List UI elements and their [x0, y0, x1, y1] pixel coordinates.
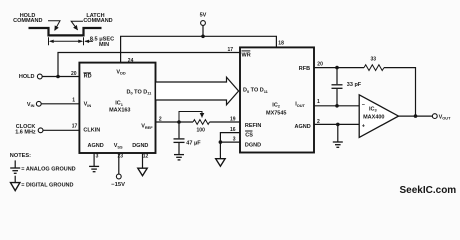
svg-text:HOLD: HOLD [19, 74, 35, 80]
digital ground (IC2) [216, 159, 225, 167]
VIN input terminal [27, 101, 41, 108]
capacitor 47uF [174, 122, 202, 154]
svg-text:MX7545: MX7545 [266, 110, 287, 116]
wire HOLD junction to WR pin 17 [58, 53, 240, 77]
svg-text:33 pF: 33 pF [347, 82, 362, 88]
svg-text:WR: WR [242, 52, 251, 58]
timing waveform [29, 28, 102, 35]
svg-text:−15V: −15V [111, 182, 125, 188]
leader arrow from HOLD COMMAND to falling edge [48, 21, 60, 31]
svg-text:2: 2 [317, 119, 320, 125]
svg-text:AGND: AGND [295, 124, 311, 130]
IC1 MAX163 box [79, 63, 155, 153]
capacitor 33pF [332, 68, 362, 106]
dimension double arrow [49, 40, 83, 43]
svg-text:18: 18 [278, 40, 284, 46]
svg-text:VSS: VSS [114, 143, 123, 149]
wire 5V rail [121, 36, 277, 62]
svg-text:20: 20 [71, 71, 77, 77]
label WR with overline [242, 51, 251, 59]
svg-text:IC1: IC1 [115, 101, 124, 107]
node IOUT/cap junction [335, 104, 339, 108]
svg-text:1.6 MHz: 1.6 MHz [15, 129, 36, 135]
svg-text:IC2: IC2 [272, 103, 281, 109]
wire VIN [41, 103, 79, 105]
svg-text:SeekIC.com: SeekIC.com [400, 185, 457, 196]
resistor 33 [364, 65, 384, 71]
wire DGND stub [220, 142, 240, 159]
svg-text:REFIN: REFIN [245, 123, 262, 129]
node VREF junction [177, 120, 181, 124]
svg-text:VIN: VIN [84, 102, 92, 108]
node HOLD/WR junction [56, 75, 60, 79]
svg-text:VDD: VDD [116, 69, 125, 75]
5V supply terminal [200, 12, 207, 25]
svg-text:DGND: DGND [245, 142, 261, 148]
wire RFB [314, 67, 364, 69]
svg-text:20: 20 [317, 61, 323, 67]
svg-text:23: 23 [118, 154, 124, 160]
node CS/DGND junction [219, 140, 223, 144]
wire 5V tap [202, 26, 204, 37]
svg-text:17: 17 [227, 47, 233, 53]
op-amp IC3 MAX400 [359, 95, 398, 138]
resistor 100 [193, 120, 210, 125]
svg-text:D0 TO D11: D0 TO D11 [243, 88, 269, 94]
wire AGND ground drop [337, 124, 339, 141]
label CS with overline [245, 131, 253, 138]
digital ground (IC1) [138, 168, 147, 176]
svg-text:3: 3 [233, 136, 236, 142]
label RD with overline [83, 73, 91, 80]
node AGND junction [336, 123, 340, 127]
svg-text:D0 TO D11: D0 TO D11 [127, 89, 153, 95]
analog ground (IC1) [89, 166, 99, 171]
svg-text:DGND: DGND [132, 143, 148, 149]
analog ground legend symbol [10, 160, 20, 173]
svg-text:COMMAND: COMMAND [83, 18, 112, 24]
wire IOUT [314, 105, 359, 107]
svg-text:IOUT: IOUT [295, 102, 305, 108]
svg-text:= DIGITAL GROUND: = DIGITAL GROUND [21, 182, 73, 188]
svg-text:VREF: VREF [141, 124, 153, 130]
svg-text:1: 1 [317, 99, 320, 105]
potentiometer 100 wiper [179, 112, 202, 123]
external arrow pointing at right tick [84, 40, 93, 43]
svg-text:RFB: RFB [299, 66, 310, 72]
svg-text:3: 3 [96, 154, 99, 160]
svg-text:12: 12 [143, 154, 149, 160]
analog ground (47uF) [174, 155, 184, 160]
dimension ticks [48, 37, 50, 45]
svg-text:CLKIN: CLKIN [83, 127, 100, 133]
bus arrow D0-D11 [156, 77, 239, 105]
svg-text:MIN: MIN [99, 42, 109, 48]
terminal VOUT [432, 114, 451, 121]
svg-text:100: 100 [197, 127, 206, 133]
node 5V rail junction [201, 35, 205, 39]
node output junction [414, 114, 418, 118]
svg-text:= ANALOG GROUND: = ANALOG GROUND [21, 166, 75, 172]
svg-text:CS: CS [245, 132, 253, 138]
wire CLOCK to CLKIN [43, 129, 79, 131]
svg-text:RD: RD [84, 74, 92, 80]
terminal -15V [111, 174, 125, 188]
svg-text:1: 1 [72, 98, 75, 104]
svg-text:17: 17 [72, 124, 78, 130]
wire VREF to pot [156, 121, 194, 123]
svg-text:19: 19 [230, 116, 236, 122]
svg-text:VIN: VIN [27, 102, 35, 108]
svg-text:AGND: AGND [88, 143, 104, 149]
svg-text:2: 2 [159, 117, 162, 123]
label HOLD COMMAND [13, 13, 42, 24]
wire VSS drop [118, 153, 120, 174]
svg-text:VOUT: VOUT [439, 114, 452, 120]
node RFB junction [335, 66, 339, 70]
svg-text:−: − [362, 102, 365, 108]
svg-text:33: 33 [371, 57, 377, 63]
IC2 MX7545 box [240, 47, 314, 152]
svg-text:IC3: IC3 [369, 106, 378, 112]
leader arrow from LATCH COMMAND to rising edge [71, 21, 83, 30]
svg-text:MAX163: MAX163 [109, 107, 130, 113]
svg-text:47 μF: 47 μF [186, 141, 201, 147]
wire op-amp output [399, 115, 433, 117]
analog ground (op-amp) [333, 142, 343, 147]
wire AGND drop (IC1) [93, 153, 95, 166]
HOLD input terminal [19, 74, 42, 80]
wire pot to REFIN [210, 121, 241, 123]
svg-text:COMMAND: COMMAND [13, 18, 42, 24]
wire CS stub [220, 133, 240, 143]
label 8.5 uSEC MIN [90, 37, 114, 49]
CLOCK input terminal [15, 124, 43, 135]
svg-text:+: + [362, 124, 365, 130]
digital ground legend symbol [11, 176, 20, 191]
svg-text:NOTES:: NOTES: [10, 153, 31, 159]
svg-text:5V: 5V [200, 12, 207, 18]
wire resistor to feedback node [384, 68, 416, 117]
wire DGND drop (IC1) [142, 153, 144, 168]
svg-text:MAX400: MAX400 [363, 115, 384, 121]
svg-text:16: 16 [230, 127, 236, 133]
wire AGND to op-amp [314, 123, 359, 125]
label LATCH COMMAND [83, 13, 112, 24]
wire HOLD to RD [42, 76, 79, 78]
